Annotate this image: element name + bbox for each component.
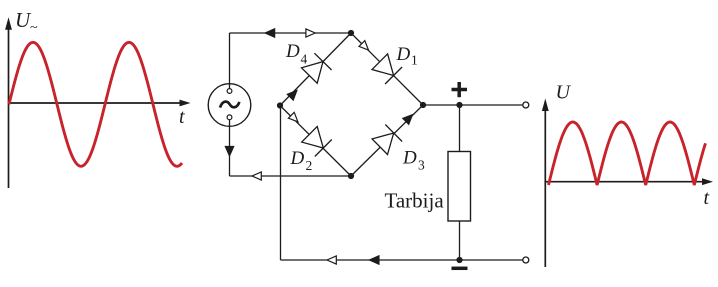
- diode D4 cathode bar: [314, 53, 331, 70]
- wire: bridge right node to plus terminal: [423, 104, 523, 106]
- current arrow (filled) on D4 arm: [287, 91, 296, 101]
- bridge arm: left node to top node: [280, 33, 351, 106]
- AC source tilde symbol: [220, 102, 239, 108]
- node: plus rail load junction: [456, 102, 462, 108]
- node: bridge bottom junction: [348, 173, 354, 179]
- svg-text:~: ~: [30, 21, 38, 36]
- diode D3 triangle: [372, 133, 394, 155]
- node: bridge top junction: [348, 30, 354, 36]
- bridge arm: bottom node to right node: [351, 105, 423, 176]
- plus output terminal: [523, 102, 529, 108]
- AC source top terminal: [227, 89, 232, 94]
- left graph sine curve (input AC voltage): [9, 42, 182, 166]
- minus output terminal: [523, 257, 529, 263]
- diode D2 cathode bar: [315, 140, 332, 157]
- current arrow (open, pointing left) on bottom-left horizontal wire: [252, 172, 261, 180]
- svg-text:D: D: [402, 148, 417, 169]
- current arrow (open, pointing left) on bottom rail: [327, 256, 336, 264]
- diode D1 cathode bar: [385, 67, 402, 84]
- wire: source bottom down: [229, 120, 231, 176]
- load resistor rectangle: [448, 152, 471, 222]
- diode D3 cathode bar: [385, 125, 402, 142]
- svg-text:2: 2: [306, 158, 313, 173]
- wire: load bottom down to bottom rail: [459, 221, 461, 260]
- current arrow (filled) on D3 arm: [403, 115, 413, 124]
- wire: top horizontal to bridge top node: [230, 32, 352, 34]
- current arrow (filled, pointing left) on top wire: [265, 29, 274, 37]
- current arrow (filled, pointing left) on bottom rail: [370, 256, 379, 264]
- current arrow (open) on D2 arm: [288, 112, 298, 122]
- svg-text:t: t: [179, 106, 185, 128]
- right graph y-axis: [542, 99, 549, 268]
- current arrow (open) on D1 arm: [359, 41, 369, 51]
- bridge arm: top node to right node: [351, 33, 423, 105]
- svg-text:Tarbija: Tarbija: [385, 189, 445, 213]
- node: bridge right junction: [420, 102, 426, 108]
- left graph y-axis: [5, 17, 12, 188]
- current arrow (open, pointing right) on top wire: [306, 29, 315, 37]
- minus sign: [452, 267, 468, 271]
- svg-text:3: 3: [418, 158, 425, 173]
- wire: source top to top-left corner: [229, 33, 231, 89]
- wire: bridge left node down to bottom rail: [280, 106, 282, 261]
- wire: horizontal to bridge bottom node: [230, 175, 352, 177]
- diode D2 triangle: [302, 127, 324, 149]
- svg-text:4: 4: [301, 52, 308, 67]
- left graph x-axis: [9, 100, 191, 107]
- node: minus rail load junction: [456, 257, 462, 263]
- AC source circle G1: [208, 84, 251, 127]
- svg-text:U: U: [556, 82, 572, 104]
- svg-text:D: D: [396, 44, 411, 65]
- AC source bottom terminal: [227, 115, 232, 120]
- wire: plus junction down to load top: [459, 105, 461, 152]
- current arrow (filled, pointing down) on source bottom wire: [225, 147, 233, 156]
- bridge arm: left node to bottom node: [280, 106, 351, 177]
- svg-text:D: D: [290, 148, 305, 169]
- diode D1 triangle: [372, 54, 394, 76]
- right graph rectified output curve: [549, 122, 706, 185]
- node: bridge left junction: [277, 102, 283, 108]
- svg-text:t: t: [704, 187, 710, 209]
- wire: bottom rail to minus terminal: [281, 259, 523, 261]
- plus sign: [452, 82, 468, 97]
- svg-text:1: 1: [411, 53, 418, 68]
- diode D4 triangle: [302, 62, 324, 84]
- svg-text:D: D: [285, 41, 300, 62]
- right graph x-axis: [545, 178, 713, 185]
